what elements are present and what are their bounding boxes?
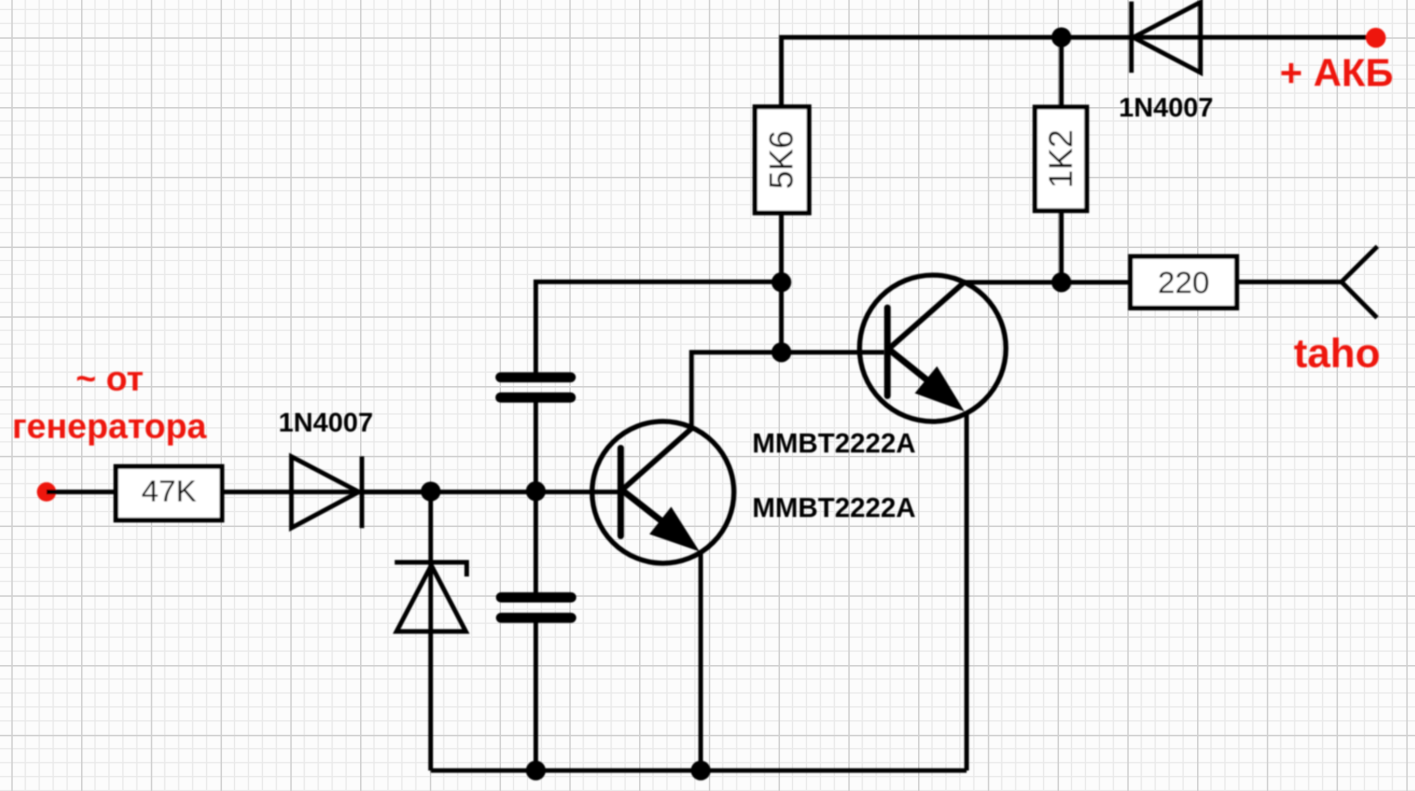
label: ~ от генератора (red) [12, 360, 207, 446]
wire: Q1 emitter down to bottom rail [698, 553, 703, 771]
svg-text:+ АКБ: + АКБ [1280, 52, 1394, 95]
wire: N1 to N2 [431, 490, 536, 495]
diode D1 (1N4007) [291, 456, 362, 528]
wire: R3 down to node N6 [1059, 211, 1064, 283]
node N7 junction dot [526, 761, 546, 781]
wire: N4 to Q2 base [781, 350, 884, 355]
transistor Q2 (MMBT2222A) [860, 275, 1006, 421]
node N5 junction dot [1052, 27, 1072, 47]
node N6 junction dot [1052, 272, 1072, 292]
svg-text:MMBT2222A: MMBT2222A [752, 492, 916, 523]
wire: N1 down through ZD1 to bottom rail [428, 492, 433, 771]
wire: Q2 emitter down to bottom rail [964, 414, 969, 771]
wire: D1 to node N1 [362, 490, 431, 495]
wire: bottom rail [431, 768, 967, 773]
wire: Q2 collector to N6 [964, 280, 1061, 285]
transistor Q1 (MMBT2222A) [592, 421, 734, 563]
connector: taho fork [1342, 246, 1378, 317]
svg-text:5K6: 5K6 [763, 130, 800, 189]
wire: R1 through D1 to node N1 [222, 490, 431, 495]
diode D2 (1N4007) [1131, 2, 1200, 73]
wire: R2 top to top rail corner, right to D2 [781, 37, 1131, 107]
terminal: generator input (red dot) [37, 482, 56, 501]
resistor R1 body [116, 467, 222, 521]
wire: N2 to Q1 base [536, 490, 621, 495]
svg-text:taho: taho [1294, 330, 1381, 376]
node N2 junction dot [526, 481, 546, 501]
svg-text:~ от: ~ от [76, 360, 144, 399]
wire: C2 down to bottom rail [533, 618, 538, 771]
node N3 junction dot [772, 272, 792, 292]
wire: generator terminal to R1 [47, 490, 119, 495]
resistor R2 body (5K6) [755, 107, 809, 213]
svg-text:47K: 47K [141, 474, 196, 509]
wire: N5 down to R3 [1059, 37, 1064, 107]
zener diode ZD1 [395, 562, 467, 631]
terminal: +АКБ battery (red dot) [1366, 28, 1386, 48]
capacitor C1 [501, 377, 571, 397]
node N1 junction dot [421, 482, 441, 502]
node N8 junction dot [691, 761, 711, 781]
wire: N6 to R4 [1061, 280, 1130, 285]
svg-text:1K2: 1K2 [1042, 130, 1079, 189]
svg-text:MMBT2222A: MMBT2222A [752, 428, 916, 459]
wire: N3 up to R2 [779, 213, 784, 282]
resistor R4 body (220) [1131, 257, 1237, 309]
wire: N3 down to N4 [779, 282, 784, 352]
svg-text:220: 220 [1158, 265, 1210, 300]
wire: R4 to taho fork [1237, 280, 1342, 285]
wire: Q1 collector up and right to node N4 [692, 352, 782, 428]
wire: N5 through D2 to battery terminal [1061, 35, 1375, 40]
wire: C1 top up and right to node N3 [536, 282, 782, 378]
capacitor C2 [501, 597, 571, 617]
resistor R3 body (1K2) [1035, 107, 1087, 211]
svg-text:1N4007: 1N4007 [279, 408, 374, 438]
wire: N2 up to C1 [533, 398, 538, 492]
svg-text:1N4007: 1N4007 [1119, 93, 1214, 123]
wire: N2 down to C2 [533, 492, 538, 598]
wire: ZD1 to bottom rail [428, 631, 433, 770]
node N4 junction dot [772, 342, 792, 362]
svg-text:генератора: генератора [12, 407, 207, 446]
